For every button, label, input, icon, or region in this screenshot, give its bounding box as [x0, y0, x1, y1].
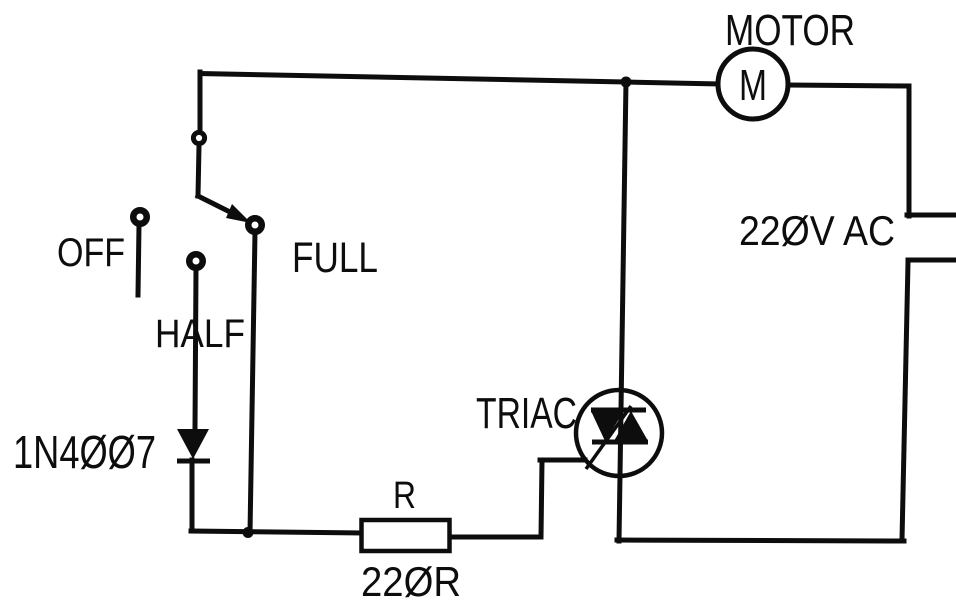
- svg-text:R: R: [393, 475, 416, 517]
- switch arm arrowhead: [226, 204, 251, 223]
- wire resistor to gate riser: [449, 461, 542, 537]
- motor M1 circle: [718, 49, 788, 119]
- wire gate horizontal: [540, 458, 585, 463]
- wire FULL vertical: [250, 232, 255, 533]
- svg-text:M: M: [739, 61, 767, 110]
- wire left vertical from top: [198, 72, 203, 131]
- triac U1 right triangle: [614, 411, 648, 441]
- wire HALF vertical: [195, 269, 196, 429]
- svg-text:22ØR: 22ØR: [361, 558, 461, 601]
- triac U1 bottom bar: [592, 440, 648, 445]
- svg-text:HALF: HALF: [155, 312, 245, 356]
- triac U1 left triangle: [591, 411, 624, 441]
- svg-text:TRIAC: TRIAC: [476, 389, 577, 438]
- wire bottom left horizontal: [191, 531, 362, 533]
- wire motor to right corner: [788, 85, 909, 216]
- triac U1 top bar: [591, 408, 646, 413]
- junction dot top: [621, 77, 632, 88]
- resistor R body: [362, 520, 450, 551]
- diode D1 cathode bar: [177, 459, 210, 464]
- triac U1 circle: [576, 390, 662, 476]
- node FULL contact circle: [248, 218, 262, 232]
- wire switch arm: [198, 196, 240, 217]
- wire switch pole stub: [198, 146, 199, 196]
- switch common contact circle: [193, 132, 204, 143]
- wire AC terminal lower: [902, 260, 956, 540]
- wire main vertical through triac: [619, 81, 626, 541]
- wire top horizontal left: [200, 74, 718, 85]
- node OFF contact circle: [133, 210, 147, 224]
- wire diode cathode down: [190, 460, 195, 531]
- svg-text:22ØV AC: 22ØV AC: [739, 207, 895, 254]
- svg-text:OFF: OFF: [57, 231, 125, 275]
- svg-text:FULL: FULL: [292, 234, 378, 282]
- wire bottom right horizontal: [617, 540, 904, 541]
- svg-text:1N4ØØ7: 1N4ØØ7: [13, 426, 156, 478]
- svg-text:MOTOR: MOTOR: [725, 6, 855, 55]
- triac U1 gate diagonal: [586, 406, 631, 469]
- wire OFF stub: [138, 225, 139, 295]
- diode D1 1N4007 triangle: [177, 429, 209, 459]
- wire AC terminal upper: [907, 213, 956, 218]
- junction dot bottom left: [243, 527, 254, 538]
- node HALF contact circle: [189, 254, 203, 268]
